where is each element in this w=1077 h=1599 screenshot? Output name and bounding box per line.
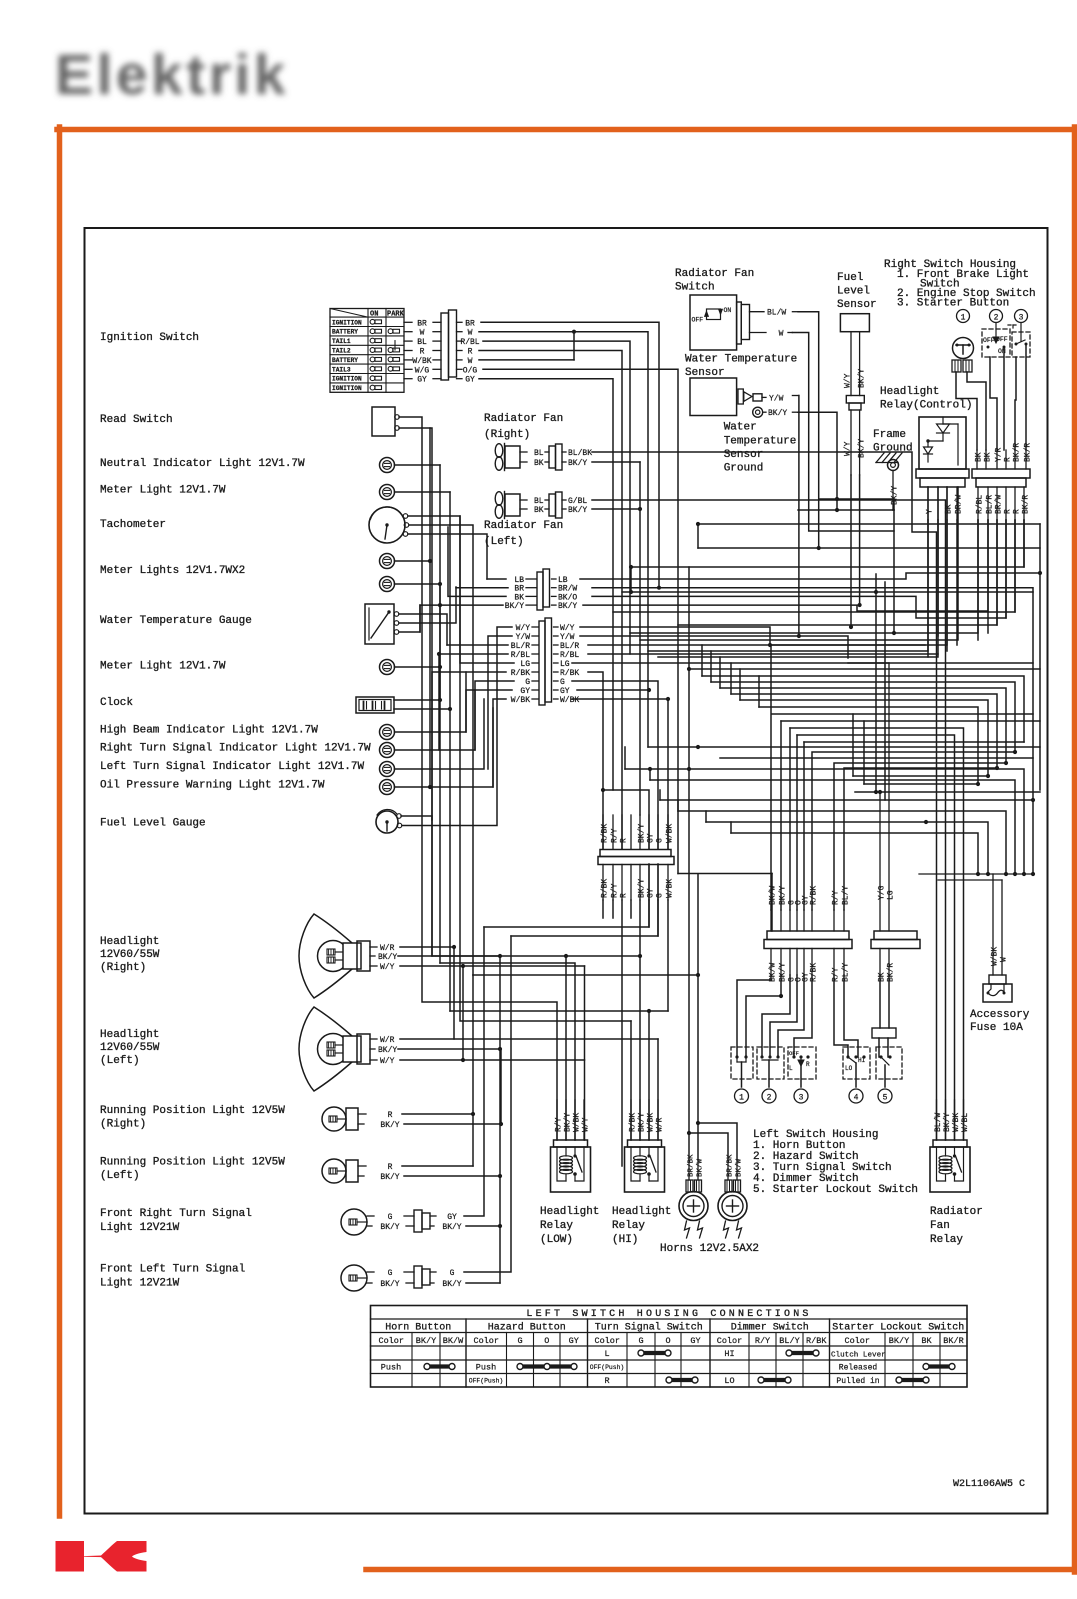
svg-text:Relay: Relay: [540, 1220, 573, 1232]
radiator fan right wires: [592, 452, 937, 1140]
svg-text:ON: ON: [370, 311, 378, 319]
circled 4 horn: [735, 1089, 749, 1103]
svg-text:G: G: [450, 1269, 455, 1278]
svg-text:GY: GY: [447, 1213, 457, 1222]
center connector labels lower: [601, 865, 675, 901]
svg-text:Level: Level: [837, 286, 870, 298]
svg-text:R/BL: R/BL: [511, 651, 530, 660]
svg-text:Push: Push: [476, 1363, 496, 1373]
front left turn signal light: [341, 1265, 462, 1291]
svg-text:1: 1: [961, 314, 966, 323]
right switch housing harness lower: [976, 487, 1031, 520]
svg-text:BK/Y: BK/Y: [768, 409, 787, 418]
horn 1: [679, 1154, 708, 1238]
tachometer wires: [408, 516, 631, 1140]
svg-text:Horns 12V2.5AX2: Horns 12V2.5AX2: [660, 1243, 759, 1255]
headlight right wires: [398, 945, 700, 1114]
svg-text:R: R: [1013, 509, 1022, 514]
svg-text:Front Right Turn Signal: Front Right Turn Signal: [100, 1208, 252, 1220]
svg-text:BK: BK: [984, 452, 993, 462]
headlight relay control connector: [916, 469, 969, 487]
svg-text:BR: BR: [417, 319, 427, 328]
svg-text:Left Turn Signal Indicator Lig: Left Turn Signal Indicator Light 12V1.7W: [100, 761, 364, 773]
front brake light switch: [952, 338, 974, 373]
svg-text:(Right): (Right): [484, 429, 530, 441]
dimmer connector: [871, 931, 920, 949]
svg-text:BR: BR: [514, 585, 524, 594]
circled 2: [990, 310, 1003, 323]
svg-text:3: 3: [799, 1094, 804, 1103]
svg-text:BL: BL: [534, 449, 544, 458]
svg-text:BK/Y: BK/Y: [505, 602, 524, 611]
svg-text:BK/W: BK/W: [443, 1336, 464, 1346]
svg-text:R: R: [1004, 457, 1013, 462]
left switch housing connector labels upper: [769, 886, 851, 931]
fuel level gauge wires: [401, 690, 497, 956]
svg-text:Radiator Fan: Radiator Fan: [484, 520, 563, 532]
read switch wires: [399, 417, 642, 1140]
svg-text:W/Y: W/Y: [380, 1057, 395, 1066]
svg-text:BR/W: BR/W: [955, 495, 964, 514]
svg-text:3: 3: [1019, 314, 1024, 323]
svg-text:BK/R: BK/R: [1022, 495, 1031, 514]
water temperature sensor: [690, 378, 799, 418]
svg-text:BL/R: BL/R: [560, 642, 579, 651]
svg-text:Turn Signal Switch: Turn Signal Switch: [595, 1322, 703, 1334]
svg-text:G: G: [525, 678, 530, 687]
turn signal feeder wires: [484, 864, 658, 936]
svg-text:Radiator Fan: Radiator Fan: [675, 268, 754, 280]
svg-text:BK/R: BK/R: [943, 1336, 963, 1346]
svg-text:1: 1: [739, 1094, 744, 1103]
svg-text:R: R: [806, 1061, 810, 1068]
svg-text:BL: BL: [417, 338, 427, 347]
meter connector B left wires: [432, 516, 514, 820]
svg-text:Accessory: Accessory: [970, 1009, 1030, 1021]
svg-text:BK/Y: BK/Y: [442, 1280, 461, 1289]
svg-text:G: G: [388, 1269, 393, 1278]
svg-text:BK/R: BK/R: [1013, 443, 1022, 462]
starter lockout switch: [876, 1047, 902, 1087]
front brake light switch wires: [956, 372, 986, 450]
svg-text:GY: GY: [569, 1336, 579, 1346]
right turn signal indicator light: [100, 690, 475, 758]
front right turn signal light: [341, 1209, 462, 1235]
right switch housing label: [884, 259, 1036, 310]
svg-text:BK/Y: BK/Y: [858, 439, 867, 458]
left switch housing switch wires: [737, 975, 858, 1057]
inner diagram border: [85, 228, 1048, 1514]
svg-text:W/R: W/R: [380, 944, 395, 953]
svg-text:BK/Y: BK/Y: [568, 506, 587, 515]
svg-text:R: R: [468, 348, 473, 357]
svg-text:R/Y: R/Y: [611, 883, 620, 898]
svg-text:Ground: Ground: [724, 463, 764, 475]
svg-text:GY: GY: [560, 687, 570, 696]
svg-text:LEFT SWITCH HOUSING CONNECTION: LEFT SWITCH HOUSING CONNECTIONS: [526, 1309, 811, 1320]
svg-text:IGNITION: IGNITION: [332, 319, 362, 326]
svg-text:Running Position Light 12V5W: Running Position Light 12V5W: [100, 1105, 285, 1117]
running position light left wires: [402, 1114, 502, 1178]
svg-text:BK/Y: BK/Y: [564, 1113, 573, 1132]
svg-text:R/BK: R/BK: [629, 1113, 638, 1132]
svg-text:Light 12V21W: Light 12V21W: [100, 1278, 180, 1290]
svg-text:W/BK: W/BK: [511, 696, 530, 705]
svg-text:W/BK: W/BK: [666, 879, 675, 898]
ignition switch output wires: [404, 319, 441, 384]
svg-text:BK/Y: BK/Y: [416, 1336, 436, 1346]
engine stop switch: [982, 323, 1010, 358]
left switch housing connections table: [371, 1306, 968, 1388]
svg-text:TAIL3: TAIL3: [332, 366, 351, 373]
svg-text:G: G: [638, 1336, 643, 1346]
svg-text:Pulled in: Pulled in: [836, 1377, 879, 1386]
svg-text:Color: Color: [717, 1336, 743, 1346]
svg-text:BL/W: BL/W: [767, 309, 786, 318]
svg-text:(Right): (Right): [100, 1119, 146, 1131]
svg-text:BK: BK: [534, 459, 544, 468]
circled 1: [957, 310, 970, 323]
center connector: [598, 850, 674, 865]
svg-text:R: R: [620, 893, 629, 898]
accessory fuse 10A: [919, 874, 1031, 1034]
water temperature sensor label: [685, 354, 797, 380]
horn 2: [718, 1154, 747, 1238]
dimmer connector labels lower: [878, 949, 896, 983]
svg-text:R: R: [604, 1376, 609, 1386]
svg-text:R: R: [1004, 509, 1013, 514]
svg-text:BK/Y: BK/Y: [638, 1113, 647, 1132]
svg-text:4: 4: [854, 1094, 859, 1103]
svg-text:GY: GY: [417, 376, 427, 385]
svg-text:W/Y: W/Y: [380, 963, 395, 972]
svg-text:(LOW): (LOW): [540, 1234, 573, 1246]
svg-text:High Beam Indicator Light 12V1: High Beam Indicator Light 12V1.7W: [100, 725, 318, 737]
svg-text:W/Y: W/Y: [516, 624, 531, 633]
svg-text:R/BK: R/BK: [511, 669, 530, 678]
svg-text:BK/Y: BK/Y: [568, 459, 587, 468]
frame ground wire: [891, 471, 900, 636]
radiator fan switch wires: [792, 312, 894, 550]
svg-text:BK/W: BK/W: [769, 963, 778, 982]
svg-text:Light 12V21W: Light 12V21W: [100, 1222, 180, 1234]
svg-text:Relay: Relay: [930, 1234, 963, 1246]
headlight relay HI: [612, 1100, 671, 1246]
svg-text:W/BK: W/BK: [412, 357, 431, 366]
svg-text:Push: Push: [381, 1363, 401, 1373]
oil pressure warning light: [100, 561, 493, 795]
high beam indicator light: [100, 672, 466, 740]
svg-text:BK/Y: BK/Y: [380, 1173, 399, 1182]
fuel level sensor wires: [849, 475, 862, 629]
ignition switch contact table: [330, 309, 405, 393]
svg-text:Oil Pressure Warning Light 12V: Oil Pressure Warning Light 12V1.7W: [100, 780, 325, 792]
left switch housing connector: [764, 931, 852, 949]
headlight left wires: [398, 956, 658, 1283]
svg-text:Headlight: Headlight: [540, 1206, 599, 1218]
svg-text:W/G: W/G: [415, 366, 430, 375]
svg-text:R/BL: R/BL: [460, 338, 479, 347]
svg-text:L: L: [789, 1065, 793, 1072]
svg-text:BL/R: BL/R: [511, 642, 530, 651]
svg-text:R/Y: R/Y: [555, 1117, 564, 1132]
page title Elektrik: [55, 43, 289, 107]
svg-text:BR/W: BR/W: [995, 495, 1004, 514]
starter lockout wires: [872, 975, 896, 1057]
svg-text:R/Y: R/Y: [832, 967, 841, 982]
svg-text:Dimmer Switch: Dimmer Switch: [731, 1322, 809, 1334]
svg-text:3. Starter Button: 3. Starter Button: [897, 298, 1009, 310]
hazard switch: [757, 1047, 784, 1087]
svg-text:W/R: W/R: [380, 1036, 395, 1045]
svg-text:LB: LB: [514, 576, 524, 585]
svg-text:BL/R: BL/R: [986, 495, 995, 514]
svg-text:(HI): (HI): [612, 1234, 638, 1246]
radiator fan left: [495, 492, 587, 519]
meter light 2: [100, 584, 442, 675]
svg-text:BL/Y: BL/Y: [842, 886, 851, 905]
svg-text:R: R: [388, 1163, 393, 1172]
svg-text:LG: LG: [520, 660, 530, 669]
front left turn signal wires: [464, 936, 511, 1283]
right switch housing connector: [972, 469, 1030, 487]
svg-text:BK/Y: BK/Y: [779, 886, 788, 905]
horn feed wires: [687, 1121, 737, 1160]
svg-text:(Left): (Left): [100, 1170, 140, 1182]
svg-text:Fan: Fan: [930, 1220, 950, 1232]
svg-text:12V60/55W: 12V60/55W: [100, 949, 160, 961]
drawing number W2L1106AW5 C: [953, 1479, 1025, 1490]
svg-text:O/G: O/G: [463, 366, 478, 375]
svg-text:BL/Y: BL/Y: [842, 963, 851, 982]
headlight left: [299, 1007, 397, 1091]
svg-text:GY: GY: [465, 376, 475, 385]
svg-text:W/BK: W/BK: [647, 1113, 656, 1132]
svg-text:W: W: [779, 330, 784, 339]
headlight relay control wires: [926, 487, 1025, 657]
svg-text:R/Y: R/Y: [832, 890, 841, 905]
svg-text:5: 5: [883, 1094, 888, 1103]
svg-text:BK: BK: [878, 972, 887, 982]
svg-text:Relay(Control): Relay(Control): [880, 400, 972, 412]
read switch label: [100, 414, 173, 426]
svg-text:(Left): (Left): [100, 1055, 140, 1067]
read switch: [372, 407, 399, 436]
meter connector A left wires: [420, 527, 508, 632]
svg-text:BK/R: BK/R: [1024, 443, 1033, 462]
svg-text:W/Y: W/Y: [582, 1117, 591, 1132]
left switch housing connector labels lower: [769, 949, 851, 983]
svg-text:R/BL: R/BL: [560, 651, 579, 660]
svg-text:Temperature: Temperature: [724, 436, 797, 448]
svg-text:Meter Light 12V1.7W: Meter Light 12V1.7W: [100, 661, 226, 673]
radiator fan left wires: [592, 500, 946, 1140]
running position light right wires: [402, 1049, 503, 1126]
svg-text:R: R: [420, 348, 425, 357]
meter lights x2: [100, 428, 442, 592]
horn button switch: [731, 1047, 753, 1087]
svg-text:Horn Button: Horn Button: [385, 1323, 451, 1334]
svg-text:R/BK: R/BK: [806, 1336, 827, 1346]
running position light right label: [100, 1105, 285, 1131]
svg-text:Elektrik: Elektrik: [55, 43, 289, 107]
svg-text:BK/Y: BK/Y: [380, 1121, 399, 1130]
radiator fan left label: [484, 520, 563, 548]
svg-text:OFF(Push): OFF(Push): [590, 1364, 625, 1371]
svg-text:BK/Y: BK/Y: [891, 486, 900, 505]
headlight relay control: [919, 417, 966, 469]
svg-text:Clutch Lever: Clutch Lever: [831, 1352, 886, 1360]
left switch housing list: [753, 1129, 918, 1196]
svg-text:BK/O: BK/O: [558, 593, 577, 602]
front right turn signal label: [100, 1208, 252, 1234]
svg-text:O: O: [544, 1336, 549, 1346]
running position light left label: [100, 1157, 285, 1183]
radiator fan right: [495, 444, 592, 471]
ignition switch connector: [441, 310, 457, 380]
svg-text:BK: BK: [975, 452, 984, 462]
svg-text:Ground: Ground: [873, 443, 913, 455]
running position light right: [322, 1107, 400, 1131]
svg-text:BK/Y: BK/Y: [380, 1280, 399, 1289]
svg-text:BK/Y: BK/Y: [378, 1046, 397, 1055]
clock: [100, 667, 452, 713]
svg-text:(Right): (Right): [100, 962, 146, 974]
svg-text:G: G: [517, 1336, 522, 1346]
svg-text:LB: LB: [558, 576, 568, 585]
svg-text:Meter Light 12V1.7W: Meter Light 12V1.7W: [100, 485, 226, 497]
svg-text:BK: BK: [534, 506, 544, 515]
meter light 1: [100, 485, 668, 1141]
svg-text:IGNITION: IGNITION: [332, 376, 362, 383]
svg-text:Fuel: Fuel: [837, 272, 863, 284]
water temperature gauge: [100, 604, 399, 644]
headlight right label: [100, 936, 160, 974]
water temperature sensor ground label: [724, 422, 797, 475]
svg-text:BL/W: BL/W: [934, 1113, 943, 1132]
svg-text:BK/Y: BK/Y: [378, 953, 397, 962]
svg-text:W/R: W/R: [656, 1117, 665, 1132]
svg-text:LG: LG: [560, 660, 570, 669]
svg-text:BK/Y: BK/Y: [943, 1113, 952, 1132]
svg-text:G: G: [656, 838, 665, 843]
water temperature gauge wires: [399, 587, 456, 645]
svg-text:OFF: OFF: [692, 317, 704, 324]
svg-text:R/Y: R/Y: [755, 1336, 770, 1346]
headlight left label: [100, 1029, 160, 1067]
svg-text:Neutral Indicator Light 12V1.7: Neutral Indicator Light 12V1.7W: [100, 458, 305, 470]
svg-text:LO: LO: [845, 1065, 853, 1072]
radiator fan relay: [930, 1100, 983, 1246]
headlight relay control label: [880, 386, 972, 412]
fuel level sensor: [840, 314, 869, 475]
svg-text:Water: Water: [724, 422, 757, 434]
svg-text:Color: Color: [844, 1336, 870, 1346]
svg-text:Headlight: Headlight: [880, 386, 939, 398]
radiator fan right label: [484, 413, 563, 441]
svg-text:BATTERY: BATTERY: [332, 357, 358, 364]
radiator fan switch label: [675, 268, 754, 294]
svg-text:Color: Color: [594, 1336, 620, 1346]
svg-text:LO: LO: [724, 1376, 734, 1386]
svg-text:12V60/55W: 12V60/55W: [100, 1042, 160, 1054]
neutral indicator light: [100, 458, 575, 1141]
svg-text:IGNITION: IGNITION: [332, 385, 362, 392]
svg-text:Frame: Frame: [873, 429, 906, 441]
svg-text:L: L: [604, 1349, 609, 1359]
svg-text:OFF(Push): OFF(Push): [469, 1378, 504, 1385]
svg-text:W/BL: W/BL: [961, 1113, 970, 1132]
svg-text:HI: HI: [858, 1057, 865, 1064]
svg-text:Right Turn Signal Indicator Li: Right Turn Signal Indicator Light 12V1.7…: [100, 743, 371, 755]
svg-text:BR: BR: [465, 319, 475, 328]
svg-text:R/BL: R/BL: [976, 495, 985, 514]
svg-text:BK: BK: [514, 593, 524, 602]
svg-text:Headlight: Headlight: [612, 1206, 671, 1218]
meter connector A (LB BR BK BK/Y): [505, 569, 578, 611]
svg-text:BK/Y: BK/Y: [442, 1223, 461, 1232]
svg-text:Hazard Button: Hazard Button: [488, 1322, 566, 1334]
dimmer connector labels upper: [878, 663, 896, 931]
svg-text:G: G: [388, 1213, 393, 1222]
svg-text:R/BK: R/BK: [810, 886, 819, 905]
svg-text:BK/Y: BK/Y: [558, 602, 577, 611]
svg-text:BL/Y: BL/Y: [779, 1336, 799, 1346]
svg-text:Water Temperature Gauge: Water Temperature Gauge: [100, 615, 252, 627]
horns label: [660, 1243, 759, 1255]
svg-text:LG: LG: [887, 890, 896, 900]
svg-text:Starter Lockout Switch: Starter Lockout Switch: [832, 1322, 964, 1334]
front right turn signal wires: [464, 927, 502, 1228]
svg-text:Y/W: Y/W: [560, 633, 575, 642]
left turn signal indicator light: [100, 699, 484, 777]
svg-text:Radiator Fan: Radiator Fan: [484, 413, 563, 425]
svg-text:W: W: [420, 329, 425, 338]
svg-text:BK/W: BK/W: [736, 1158, 744, 1177]
svg-text:GY: GY: [647, 888, 656, 898]
svg-text:(Left): (Left): [484, 536, 524, 548]
svg-text:Y/W: Y/W: [516, 633, 531, 642]
svg-text:W/BK: W/BK: [991, 947, 1000, 966]
tachometer: [100, 507, 409, 543]
svg-text:TAIL2: TAIL2: [332, 348, 351, 355]
svg-text:W: W: [1000, 957, 1009, 962]
front left turn signal label: [100, 1264, 245, 1290]
svg-text:G/BL: G/BL: [568, 497, 587, 506]
running position light left: [322, 1159, 400, 1183]
ignition switch label: [100, 332, 199, 344]
svg-text:GY: GY: [647, 833, 656, 843]
svg-text:Water Temperature: Water Temperature: [685, 354, 797, 366]
svg-text:Y: Y: [926, 509, 935, 514]
radiator fan switch: [690, 295, 798, 350]
svg-text:Y/G: Y/G: [878, 885, 887, 900]
svg-text:W/Y: W/Y: [844, 373, 853, 388]
svg-text:Radiator: Radiator: [930, 1206, 983, 1218]
svg-text:Read Switch: Read Switch: [100, 414, 173, 426]
svg-text:W2L1106AW5 C: W2L1106AW5 C: [953, 1479, 1025, 1490]
svg-text:Sensor: Sensor: [685, 367, 725, 379]
svg-text:BK: BK: [921, 1336, 932, 1346]
fuel level gauge: [100, 809, 402, 833]
harness bus mesh: [572, 487, 1042, 1140]
svg-text:GY: GY: [520, 687, 530, 696]
circled 5 hazard: [762, 1089, 776, 1103]
svg-text:BK/Y: BK/Y: [638, 879, 647, 898]
circled 8 lockout: [878, 1089, 892, 1103]
svg-text:Color: Color: [473, 1336, 499, 1346]
svg-text:HI: HI: [724, 1349, 734, 1359]
